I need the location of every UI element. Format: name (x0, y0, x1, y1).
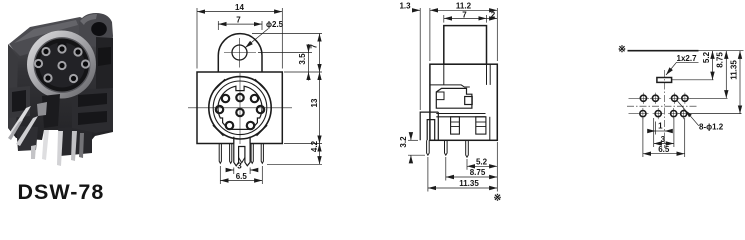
extension line 5.2 (672, 79, 714, 81)
tab inner lines (444, 64, 487, 85)
extension line 8.75 (690, 97, 728, 99)
photo pin hole 1 (41, 47, 50, 56)
fork slot (239, 158, 245, 163)
photo pin hole 6 (81, 59, 90, 68)
photo left side step (8, 44, 18, 134)
insert hole mid-left (216, 106, 223, 113)
hole B4 (678, 108, 689, 119)
hole T4 (679, 93, 690, 104)
hole B1 (637, 108, 648, 119)
top reference line (628, 50, 699, 52)
photo tab highlight (80, 14, 97, 25)
dim 11.35 fp (729, 51, 740, 114)
left bracket (420, 112, 438, 140)
photo socket ring inner shade (34, 37, 91, 93)
shield chamfer top-left (213, 79, 225, 91)
dim 5.2 fp (702, 51, 713, 80)
photo top face highlight (14, 20, 78, 43)
dim 7 side (444, 10, 487, 22)
inner vertical line right (489, 117, 491, 141)
front mounting tab (218, 34, 262, 72)
label 1x2.7 (666, 54, 699, 75)
svg-text:13: 13 (310, 98, 319, 107)
base plate band (436, 114, 485, 117)
dim 14 (197, 3, 282, 69)
svg-text:※: ※ (618, 44, 626, 55)
svg-text:14: 14 (235, 3, 244, 12)
dim 13 (310, 72, 320, 144)
dim 5.2 side (467, 158, 497, 167)
hole T2 (650, 93, 661, 104)
shield slot 1x2.7 (657, 78, 672, 83)
svg-text:5.2: 5.2 (476, 158, 488, 167)
insert outline with key notch (218, 86, 262, 129)
photo pin hole 5 (57, 61, 66, 70)
photo tab hole (91, 22, 107, 36)
shield chamfer bottom-left (213, 125, 224, 136)
svg-text:DSW-78: DSW-78 (18, 180, 105, 204)
insert hole top-mid (236, 94, 243, 101)
socket outer circle (209, 77, 271, 139)
photo bottom clip highlight (37, 102, 47, 116)
pin 1 (219, 144, 221, 164)
socket inner circle (213, 81, 267, 135)
photo pin hole 8 (69, 74, 78, 83)
dim 3.5 (298, 44, 309, 81)
svg-text:11.2: 11.2 (456, 2, 472, 11)
row tick left bottom (629, 113, 638, 115)
photo body top face (9, 17, 90, 58)
photo bottom groove (42, 94, 60, 128)
photo socket inner (35, 39, 89, 92)
photo right recess upper (98, 47, 111, 66)
svg-text:6.5: 6.5 (658, 145, 670, 154)
shield neck below socket (234, 137, 250, 144)
svg-text:6.5: 6.5 (236, 172, 248, 181)
svg-text:2: 2 (491, 10, 496, 19)
dim 3 bottom (226, 162, 258, 175)
right dim chain extension lines (252, 34, 322, 165)
svg-text:3.2: 3.2 (399, 136, 408, 148)
insert hole center (236, 109, 243, 116)
hole T1 (638, 93, 649, 104)
photo body right face (96, 37, 113, 133)
dim 6.5 bottom (220, 166, 262, 184)
hole T3 (669, 93, 680, 104)
inner shelf line (430, 85, 470, 87)
photo pin hole 3 (73, 47, 82, 56)
dim 8.75 (446, 168, 498, 177)
svg-text:1x2.7: 1x2.7 (677, 54, 698, 63)
dim 11.35 (428, 179, 497, 188)
photo socket metal ring (27, 31, 96, 99)
hole B3 (668, 108, 679, 119)
svg-text:11.35: 11.35 (729, 60, 738, 80)
shield chamfer bottom-right (257, 125, 268, 136)
photo left block recess (12, 90, 26, 112)
row tick left top (629, 97, 639, 99)
pin 4 (261, 144, 263, 164)
photo left foot (16, 126, 38, 151)
insert hole bottom-right (247, 122, 254, 129)
dim 3.2 (399, 133, 425, 163)
snout small square (465, 97, 473, 105)
svg-text:4.2: 4.2 (310, 140, 319, 152)
dim 7 top (218, 16, 262, 30)
svg-text:3.5: 3.5 (298, 53, 307, 65)
socket centerlines (188, 73, 292, 144)
hole B2 (653, 108, 664, 119)
insert hole mid-right (257, 106, 264, 113)
svg-text:8.75: 8.75 (470, 168, 486, 177)
svg-text:7: 7 (462, 10, 467, 19)
svg-text:8-ϕ1.2: 8-ϕ1.2 (699, 123, 724, 132)
barrel front vertical (489, 64, 491, 85)
side pin 1 (427, 140, 430, 155)
socket profile snout (436, 88, 472, 108)
dim 11.2 (430, 2, 497, 62)
svg-text:8.75: 8.75 (716, 52, 725, 68)
dim 8.75 fp (716, 51, 727, 99)
pin 3 (251, 144, 253, 164)
dim 3 fp (654, 118, 674, 147)
bottom dim extension lines (428, 142, 497, 192)
photo left block (9, 86, 30, 118)
shield fork pin (234, 144, 250, 166)
svg-text:7: 7 (236, 16, 241, 25)
photo right block recess 2 (78, 111, 107, 125)
photo front pins (31, 130, 84, 166)
pin 2 (230, 144, 232, 164)
photo main body (8, 35, 113, 142)
photo pin hole 7 (43, 73, 52, 82)
photo right block recess (78, 93, 107, 107)
right foot (476, 117, 486, 134)
dim 6.5 fp (643, 118, 685, 157)
side tab (444, 26, 487, 65)
photo back pins angled (8, 106, 38, 146)
svg-text:※: ※ (494, 193, 502, 204)
insert hole top-left (222, 95, 229, 102)
label phi2.5 (245, 20, 283, 48)
side pin 2 (445, 140, 448, 155)
dim 1 fp (649, 121, 671, 134)
horizontal centerline (627, 105, 697, 107)
photo key notch (58, 43, 67, 49)
photo right foot (58, 126, 92, 156)
dim 7 right (310, 34, 320, 73)
svg-text:3: 3 (237, 162, 242, 171)
label 8-phi1.2 (677, 100, 724, 132)
side pin 3 (466, 140, 469, 157)
photo pin hole 4 (34, 59, 43, 68)
svg-text:7: 7 (310, 44, 319, 49)
photo pin hole 2 (57, 44, 66, 53)
left foot (451, 117, 460, 134)
extension line 11.35 (689, 113, 742, 115)
insert hole bottom-left (226, 122, 233, 129)
svg-text:1.3: 1.3 (399, 2, 411, 11)
svg-text:3: 3 (661, 135, 666, 144)
dim 4.2 (310, 140, 320, 164)
svg-text:1: 1 (658, 121, 663, 130)
front body outline (197, 72, 282, 144)
svg-text:ϕ2.5: ϕ2.5 (266, 20, 284, 29)
dim 2 side (487, 10, 498, 19)
photo mounting tab (79, 13, 113, 47)
front tab hole phi2.5 (232, 45, 247, 60)
tab hole crosshair (224, 38, 256, 68)
svg-text:11.35: 11.35 (459, 179, 479, 188)
snout inner step (436, 92, 444, 100)
photo right block lower (72, 88, 113, 133)
vertical centerline (663, 70, 665, 148)
side body outline (430, 64, 497, 140)
insert hole top-right (251, 95, 258, 102)
dim 1.3 (399, 2, 429, 111)
photo socket insert (39, 43, 85, 88)
svg-text:5.2: 5.2 (702, 51, 711, 63)
shield chamfer top-right (255, 79, 267, 91)
